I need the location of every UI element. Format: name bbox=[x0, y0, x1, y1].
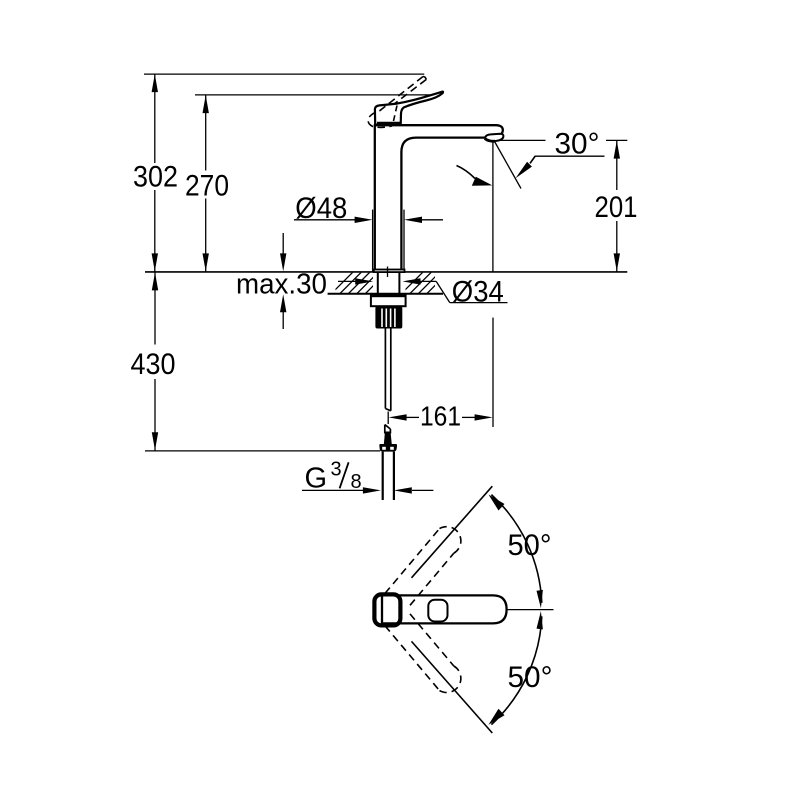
leader 30deg underline bbox=[535, 155, 605, 157]
o34 leader underline bbox=[450, 302, 508, 304]
svg-text:G: G bbox=[305, 463, 328, 495]
water stream vertical axis bbox=[492, 142, 494, 272]
deck top line bbox=[145, 271, 627, 273]
deck bottom line bbox=[328, 293, 443, 295]
extension line top (302 level) bbox=[144, 73, 424, 75]
arrow 302 top bbox=[152, 74, 158, 92]
nut highlights bbox=[382, 447, 386, 450]
o48 left arrow bbox=[294, 219, 355, 221]
handle raised position dashed edge C bbox=[394, 106, 398, 122]
leader 30deg diagonal bbox=[530, 156, 535, 163]
nut knurl highlights bbox=[382, 309, 395, 328]
161 axis tick bbox=[387, 412, 389, 425]
faucet body column right edge + spout underside bbox=[401, 138, 487, 270]
extension line 30deg (spout outlet level) bbox=[496, 139, 546, 141]
svg-text:max.30: max.30 bbox=[236, 268, 327, 300]
161 right arrow bbox=[462, 416, 476, 418]
arrow 430 bottom bbox=[152, 432, 158, 450]
svg-text:302: 302 bbox=[133, 161, 178, 194]
handle dome contact strip bbox=[377, 122, 401, 125]
aerator at spout tip bbox=[485, 134, 503, 141]
compression olive fitting bbox=[384, 432, 392, 445]
svg-text:Ø34: Ø34 bbox=[452, 276, 504, 309]
svg-text:50°: 50° bbox=[508, 529, 552, 562]
supply pipe upper segment bbox=[385, 329, 390, 411]
svg-text:3: 3 bbox=[331, 459, 342, 481]
G3/8 dimension left arrow bbox=[302, 489, 364, 491]
svg-text:430: 430 bbox=[131, 348, 176, 381]
plan dashed lever rotated down bbox=[385, 614, 461, 693]
connection nut bbox=[379, 444, 397, 452]
water stream 30deg line bbox=[494, 141, 521, 189]
svg-text:201: 201 bbox=[595, 191, 638, 224]
arrow upper arc top bbox=[489, 495, 505, 511]
o34 leader diagonal bbox=[436, 281, 450, 302]
handle raised position dashed edge B bbox=[394, 80, 427, 105]
handle raised dashed tip bbox=[423, 77, 426, 80]
dimension line o48 left extension bbox=[372, 210, 374, 272]
shank through deck right bbox=[398, 272, 400, 294]
svg-text:50°: 50° bbox=[508, 661, 553, 694]
plan upper arc bbox=[491, 495, 541, 603]
axis tick at deck bbox=[387, 267, 389, 278]
base plate on deck bbox=[374, 270, 405, 273]
arrow 270 bottom bbox=[203, 253, 209, 271]
deck hatching left bbox=[330, 270, 389, 295]
arrow lower arc bottom bbox=[489, 709, 505, 725]
flow direction curved arrow bbox=[457, 166, 476, 179]
extension line bottom (430 level) bbox=[145, 450, 380, 452]
aerator dark lip bbox=[485, 139, 495, 142]
arrow 270 top bbox=[203, 95, 209, 113]
tail pipe G3/8 bbox=[382, 452, 384, 500]
plan view centerline bbox=[507, 609, 554, 611]
handle raised position dashed edge A bbox=[368, 77, 423, 128]
plan view lever body bbox=[382, 595, 507, 623]
161 left arrow bbox=[389, 414, 407, 420]
svg-text:8: 8 bbox=[351, 471, 362, 493]
plan dashed lever rotated up bbox=[385, 527, 461, 606]
leader 30deg arrowhead bbox=[516, 162, 532, 179]
svg-text:270: 270 bbox=[185, 169, 229, 202]
plan lower arc bbox=[491, 616, 541, 724]
mounting nut knurled bbox=[375, 306, 402, 328]
arrow 201 top bbox=[614, 141, 620, 159]
dimension 270 line bbox=[205, 95, 207, 171]
faucet body column left edge bbox=[374, 125, 376, 270]
shank through deck left bbox=[377, 272, 379, 294]
dimension line o48 right extension bbox=[403, 210, 405, 272]
plan view handle end cap bbox=[374, 594, 400, 625]
svg-text:Ø48: Ø48 bbox=[295, 192, 347, 225]
washer flange dark top bbox=[372, 294, 406, 297]
arrow 302 bottom bbox=[152, 253, 158, 271]
dimension 430 line bbox=[154, 272, 156, 345]
washer flange under deck bbox=[371, 294, 406, 306]
arrow 430 top bbox=[152, 272, 158, 290]
plan 50deg lower boundary line bbox=[412, 641, 493, 733]
o34 right arrow bbox=[419, 280, 436, 282]
supply pipe lower segment bbox=[385, 425, 391, 434]
plan 50deg upper boundary line bbox=[412, 486, 493, 578]
dimension 201 line bbox=[616, 140, 618, 190]
o48 right arrow bbox=[422, 219, 443, 221]
handle lever (solid, closed position) bbox=[375, 92, 443, 125]
dimension 302 line bbox=[154, 74, 156, 163]
o34 left arrow bbox=[338, 280, 356, 282]
max.30 top arrow bbox=[282, 233, 284, 255]
plan view lever inner section bbox=[428, 600, 447, 622]
extension line (270 level) bbox=[195, 94, 437, 96]
faucet top edge and spout tip bbox=[374, 125, 503, 133]
arrow 201 bottom bbox=[614, 253, 620, 271]
extension line right of 161 bbox=[492, 318, 494, 427]
arrow upper arc bottom bbox=[537, 590, 543, 608]
deck hatching right bbox=[400, 270, 451, 295]
G3/8 dimension right arrow bbox=[412, 489, 433, 491]
arrow lower arc top bbox=[537, 611, 543, 629]
flow arrow head bbox=[472, 177, 493, 186]
svg-text:161: 161 bbox=[420, 401, 461, 432]
max.30 bottom arrow bbox=[282, 311, 284, 329]
